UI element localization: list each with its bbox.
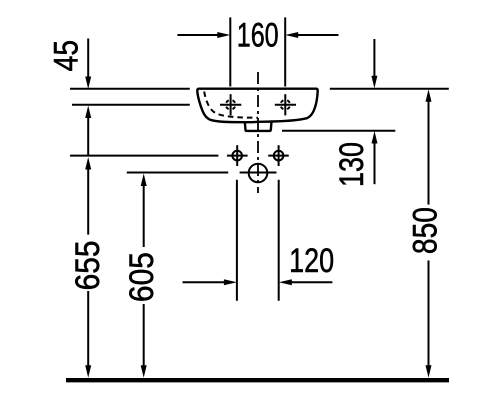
extension line 120 left: [236, 180, 238, 301]
dimension 850 top arrow: [426, 89, 432, 204]
svg-text:45: 45: [48, 40, 86, 72]
extension line 160 right: [284, 17, 286, 86]
mounting hole left (circle + crosshair): [227, 145, 248, 166]
dimension 130 bottom arrow: [372, 131, 378, 184]
extension line 160 left: [229, 17, 231, 86]
dimension 605 top arrow: [141, 174, 147, 248]
tap hole left (crosshair + dashed circle): [220, 94, 241, 115]
svg-text:605: 605: [123, 252, 161, 302]
wire tap-hole level line left: [72, 104, 190, 106]
dimension 160 left arrow: [177, 32, 230, 38]
drain hole (circle + crosshair): [240, 164, 277, 183]
svg-text:850: 850: [406, 207, 444, 254]
dimension 45 top arrow: [85, 39, 91, 90]
svg-text:655: 655: [69, 240, 107, 290]
mounting hole right (circle + crosshair): [268, 145, 289, 166]
dimension 160 right arrow: [285, 32, 338, 38]
dimension 130 top arrow: [371, 39, 377, 88]
svg-text:130: 130: [333, 142, 371, 187]
dimension 120 right arrow: [279, 279, 333, 285]
centerline (vertical dash-dot): [257, 72, 259, 193]
dimension 655 bottom arrow: [85, 291, 91, 378]
tap hole right (crosshair + dashed circle): [275, 94, 296, 115]
dimension 45 bottom arrow: [85, 106, 91, 156]
wire drain-bottom level line right: [282, 130, 395, 132]
drain fitting box below bowl: [245, 122, 272, 131]
wire rim-level reference line left: [70, 88, 190, 90]
dimension 605 bottom arrow: [141, 304, 147, 378]
extension line 120 right: [278, 180, 280, 301]
wire mounting-hole level line left: [70, 155, 218, 157]
dimension 655 top arrow: [85, 157, 91, 235]
washbasin outline: [197, 89, 317, 123]
wire drain level line left: [127, 172, 228, 174]
dashed inner basin line: [204, 92, 258, 118]
dimension 850 bottom arrow: [426, 261, 432, 378]
floor line: [66, 378, 449, 382]
dimension 120 left arrow: [183, 279, 237, 285]
wire rim-level reference line right: [330, 88, 449, 90]
svg-text:120: 120: [289, 242, 334, 280]
svg-text:160: 160: [237, 17, 279, 55]
